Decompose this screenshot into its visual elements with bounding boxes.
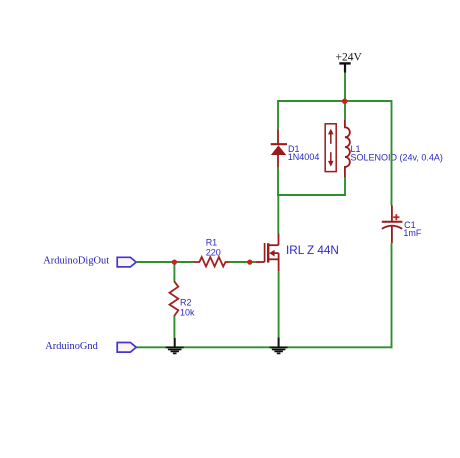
wire L1 bottom bbox=[344, 177, 346, 195]
svg-text:SOLENOID (24v, 0.4A): SOLENOID (24v, 0.4A) bbox=[351, 153, 443, 163]
svg-text:R2: R2 bbox=[180, 298, 192, 308]
solenoid actuator box bbox=[325, 124, 336, 172]
pin ArduinoGnd bbox=[117, 343, 136, 353]
node junction gate-R2 bbox=[172, 259, 177, 264]
wire loop bottom rail bbox=[277, 194, 346, 196]
wire D1 top bbox=[277, 100, 279, 130]
wire R2 top bbox=[173, 262, 175, 281]
inductor L1 bbox=[345, 120, 350, 177]
svg-text:1mF: 1mF bbox=[403, 228, 422, 238]
wire gate right bbox=[230, 261, 256, 263]
svg-text:1N4004: 1N4004 bbox=[288, 152, 320, 162]
svg-text:10k: 10k bbox=[180, 307, 195, 317]
wire bottom rail bbox=[136, 346, 393, 348]
svg-text:220: 220 bbox=[206, 247, 221, 257]
wire gate left bbox=[137, 261, 194, 263]
ground right bbox=[270, 338, 288, 354]
wire +24V to junction bbox=[344, 73, 346, 102]
wire right vertical top bbox=[391, 100, 393, 206]
svg-text:+24V: +24V bbox=[336, 52, 363, 64]
wire source bbox=[278, 271, 280, 337]
capacitor C1 bbox=[382, 206, 403, 244]
wire R2 bottom bbox=[173, 316, 175, 338]
svg-text:ArduinoDigOut: ArduinoDigOut bbox=[43, 255, 109, 266]
svg-text:ArduinoGnd: ArduinoGnd bbox=[45, 341, 98, 352]
resistor R1 bbox=[194, 257, 231, 267]
resistor R2 bbox=[170, 281, 179, 316]
diode D1 bbox=[271, 130, 287, 168]
node junction +24V bbox=[342, 98, 348, 104]
svg-text:R1: R1 bbox=[206, 238, 218, 248]
wire right vertical bottom bbox=[391, 243, 393, 348]
ground left bbox=[166, 338, 184, 354]
wire L1 top bbox=[344, 101, 346, 120]
transistor Q1 IRLZ44N bbox=[256, 234, 279, 272]
node junction gate2 bbox=[247, 259, 252, 264]
power +24V bbox=[336, 52, 363, 73]
wire drain bbox=[277, 195, 279, 234]
svg-text:IRL Z 44N: IRL Z 44N bbox=[286, 244, 339, 257]
pin ArduinoDigOut bbox=[117, 257, 136, 267]
wire top rail bbox=[278, 100, 392, 102]
wire D1 bottom bbox=[277, 167, 279, 196]
